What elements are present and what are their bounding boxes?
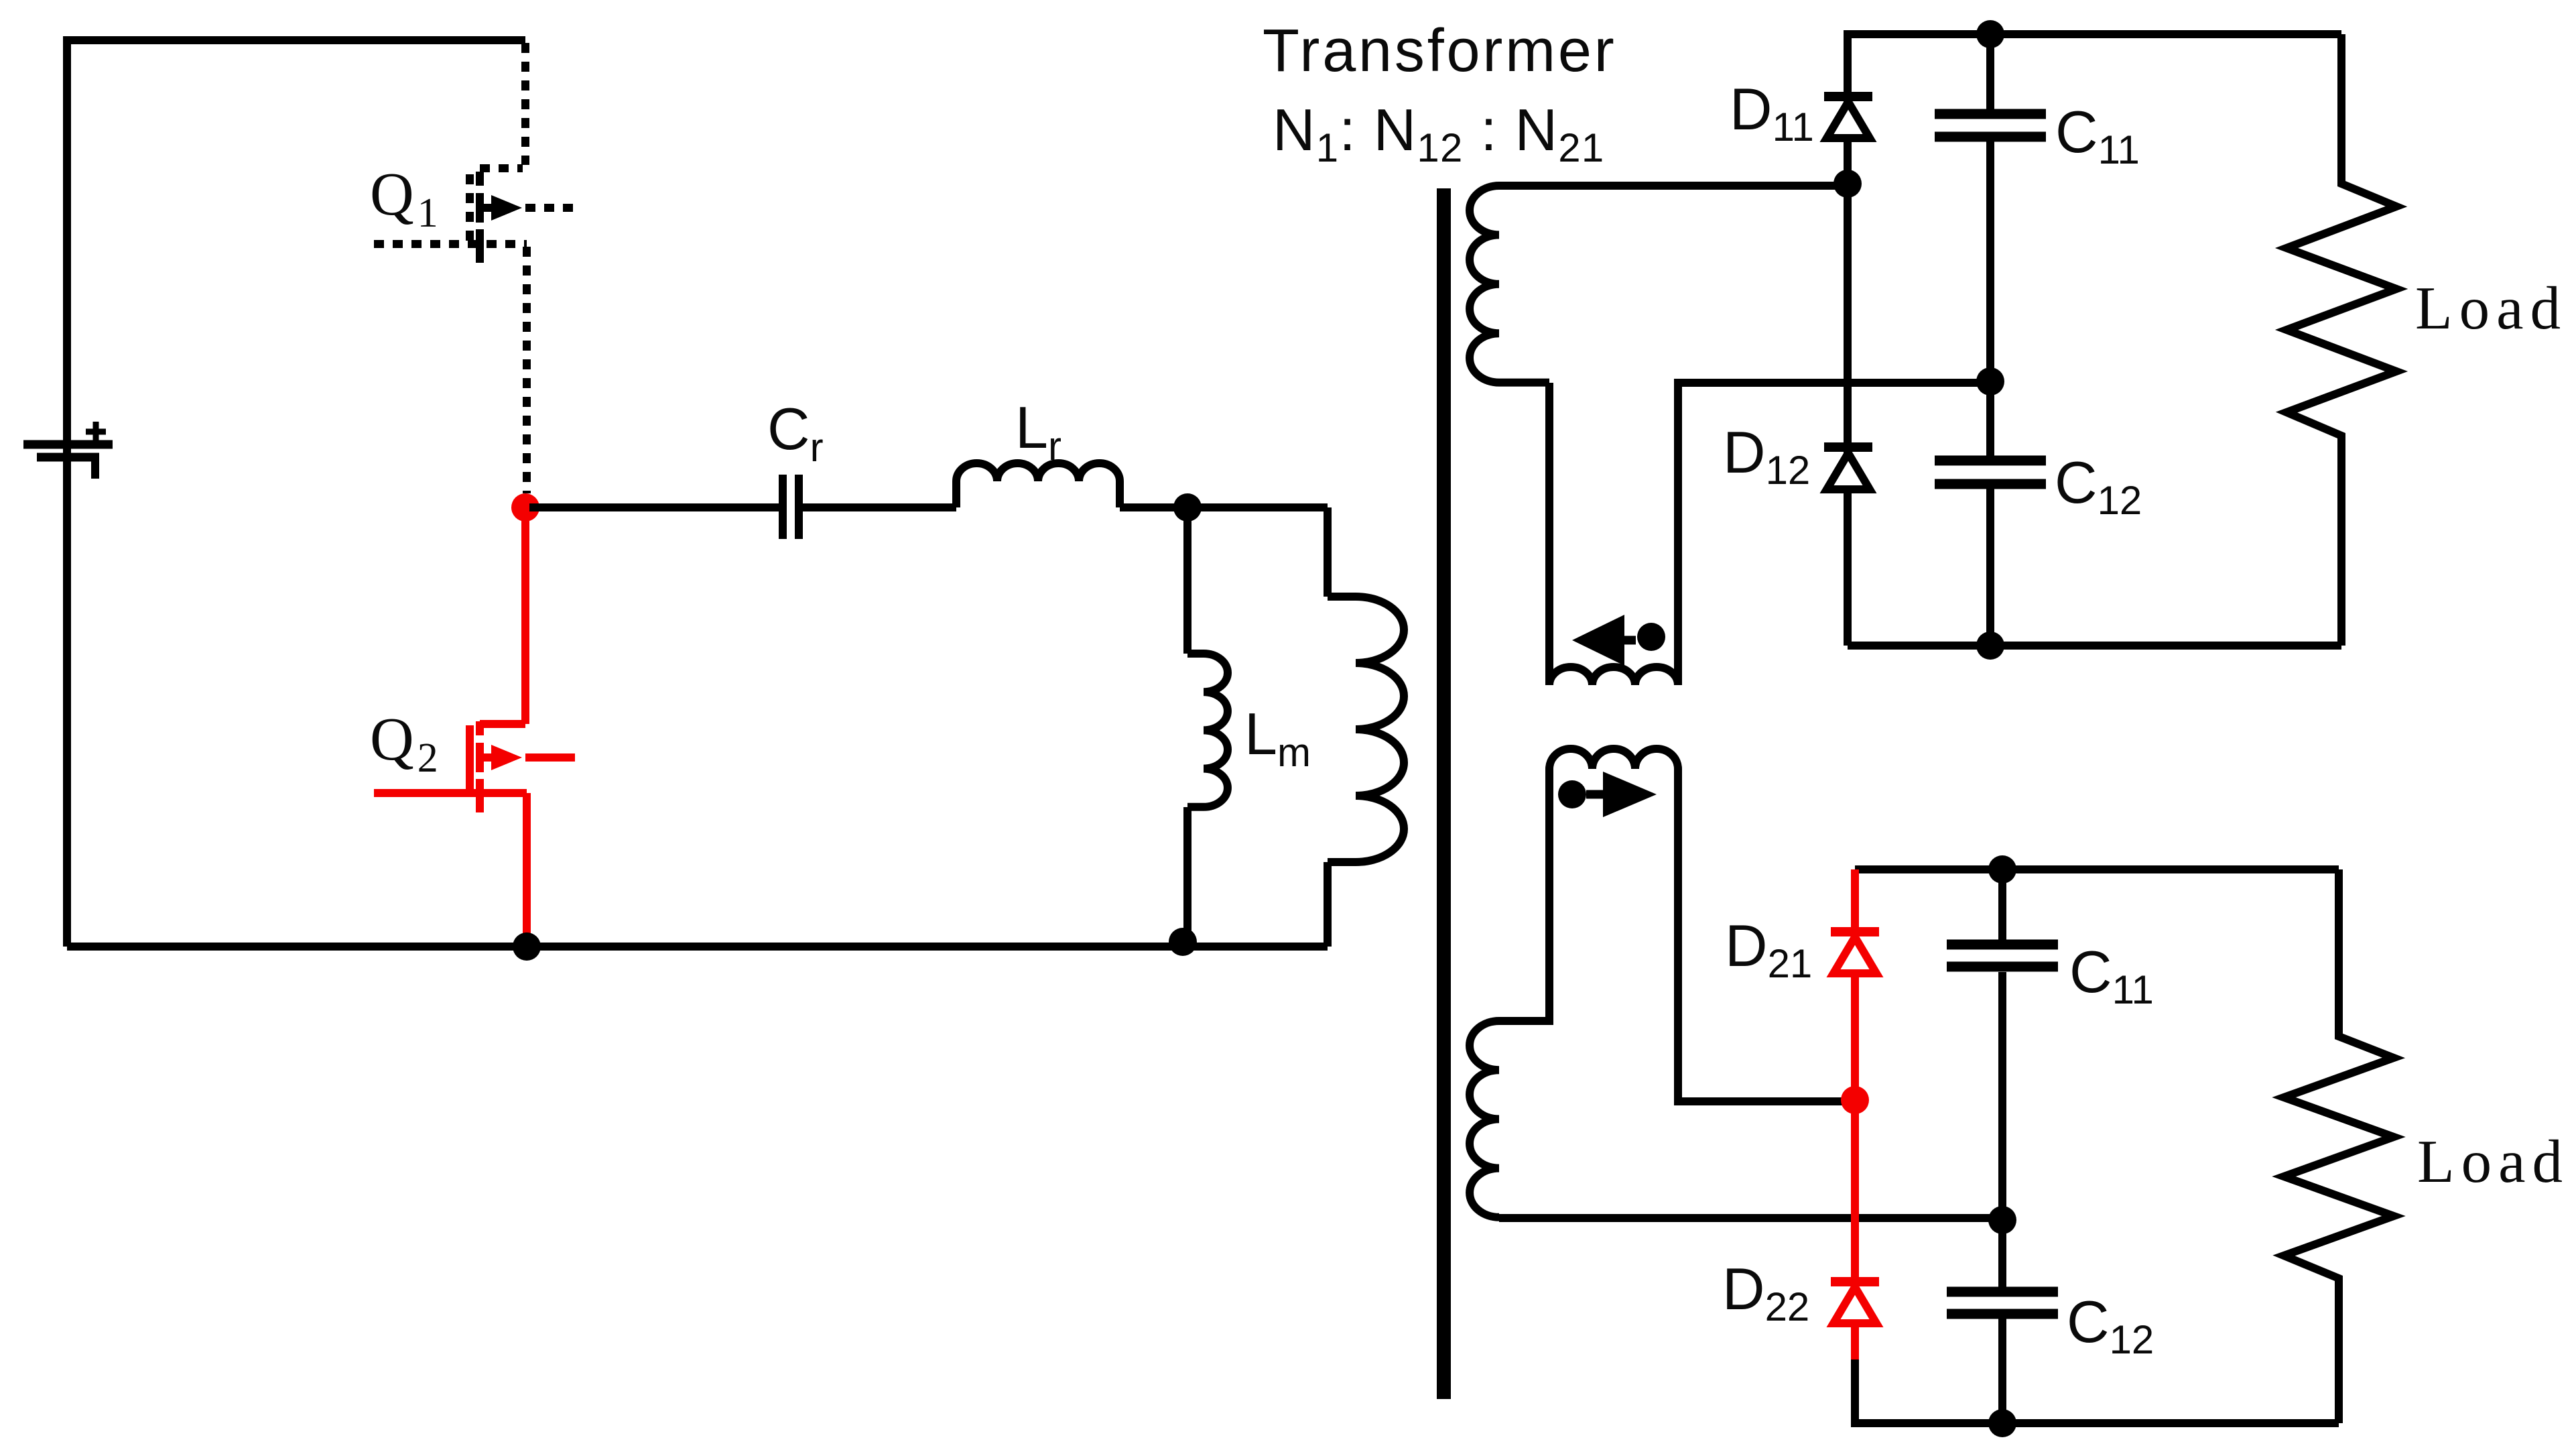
svg-text:Load: Load	[2415, 274, 2567, 342]
transistor Q1 channel	[476, 172, 484, 263]
winding N12 arrow stub	[1624, 636, 1636, 645]
node: cap midpoint	[1976, 367, 2004, 396]
diode D11	[1824, 97, 1872, 138]
wire node A to Cr	[529, 503, 779, 511]
node A: Q1-Q2 midpoint (red)	[511, 493, 539, 522]
wire bottom-left corner output 2	[1855, 1359, 2339, 1423]
winding N12 polarity arrow	[1572, 615, 1624, 666]
inductor Lm	[1187, 507, 1228, 944]
resistor Load 1	[2287, 34, 2396, 646]
wire winding N21 bottom end to caps	[1499, 1214, 2002, 1222]
transistor Q1 arrow	[491, 195, 522, 221]
node: bottom rail cap junction	[1976, 631, 2004, 660]
diode leg output 2 (red)	[1851, 869, 1859, 1361]
wire top rail output 1	[1848, 34, 2341, 646]
wire top rail output 2	[1855, 865, 2339, 873]
wire winding N21 right limb to diode node	[1678, 769, 1844, 1101]
capacitor C12	[1935, 461, 2046, 484]
capacitor C11 lower	[1947, 945, 2058, 967]
svg-text:Load: Load	[2417, 1128, 2569, 1195]
transformer primary winding N1	[1328, 507, 1404, 947]
node: cap midpoint output 2	[1988, 1206, 2016, 1234]
winding N21 polarity dot	[1558, 780, 1586, 808]
node: D21-D22 junction (red)	[1841, 1086, 1869, 1114]
wire bottom rail output 1	[1848, 642, 2341, 650]
node: bottom rail cap junction output 2	[1988, 1409, 2016, 1437]
capacitor C12 lower	[1947, 1292, 2058, 1314]
diode D12	[1824, 447, 1872, 489]
node B: Lm top junction	[1173, 493, 1202, 522]
capacitor Cr	[783, 475, 799, 539]
wire Lr to node B and primary	[1120, 503, 1328, 511]
transistor Q1 (dashed, off)	[374, 43, 575, 493]
wire top rail from battery to Q1 drain	[67, 40, 525, 947]
secondary winding N21 coil upper	[1549, 749, 1678, 769]
wire Cr to Lr	[803, 503, 956, 511]
transformer core	[1437, 188, 1451, 1399]
battery V1	[23, 422, 113, 479]
secondary winding N12 coil	[1470, 186, 1848, 383]
node: Q2 source on bottom rail	[513, 932, 541, 961]
svg-text:Transformer: Transformer	[1263, 17, 1617, 84]
capacitor column output 2	[1998, 869, 2006, 1423]
node: top rail cap junction	[1976, 20, 2004, 48]
transistor Q2 arrow	[491, 745, 522, 770]
winding N12 polarity dot	[1637, 623, 1665, 651]
winding N21 arrow stub	[1586, 790, 1603, 799]
winding N21 polarity arrow	[1603, 772, 1657, 817]
diode D22	[1831, 1282, 1879, 1323]
wire bottom rail from battery to primary winding	[67, 943, 1328, 951]
resistor Load 2	[2284, 869, 2394, 1423]
node: top rail cap junction output 2	[1988, 855, 2016, 884]
capacitor C11	[1935, 114, 2046, 137]
node: Lm bottom junction	[1169, 928, 1197, 956]
diode D21	[1831, 932, 1879, 973]
inductor Lr	[956, 463, 1120, 507]
secondary winding N21 left limb and coil	[1470, 769, 1549, 1217]
transistor Q2 (red, on)	[374, 507, 575, 944]
secondary winding N12 lower loop with turns	[1549, 383, 1986, 685]
node: D11-D12 junction	[1833, 170, 1862, 198]
capacitor column output 1	[1986, 34, 1994, 646]
